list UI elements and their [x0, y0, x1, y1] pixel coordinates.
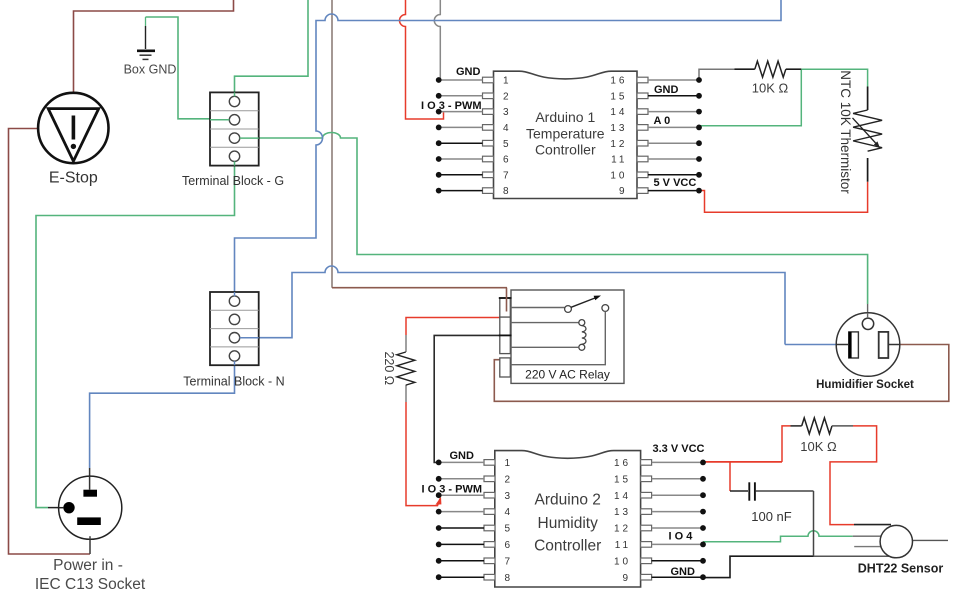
wire green Arduino1 pin13 A0 to 10K/thermistor node [699, 69, 801, 126]
svg-text:IEC C13 Socket: IEC C13 Socket [35, 576, 146, 593]
svg-text:A 0: A 0 [654, 115, 671, 127]
E-Stop switch symbol [38, 93, 108, 163]
svg-text:14: 14 [614, 491, 631, 502]
svg-text:GND: GND [654, 84, 679, 96]
wire stubs inside Terminal Block G [234, 92, 236, 96]
svg-text:11: 11 [611, 155, 627, 166]
wire green Terminal Block G pin3 to humidifier socket top [240, 133, 868, 305]
svg-text:14: 14 [610, 107, 627, 118]
wire black DHT22 top lead [854, 524, 891, 526]
wire Arduino1 pin16 up to 10K resistor (top) [699, 69, 735, 80]
wire 220ohm leads [405, 335, 407, 352]
Arduino2 pin 14 [614, 491, 706, 502]
Arduino2 pin 9 [623, 573, 706, 584]
Box GND ground symbol [137, 51, 155, 60]
svg-text:5 V VCC: 5 V VCC [654, 177, 697, 189]
svg-text:100 nF: 100 nF [751, 509, 792, 524]
wire red Arduino2 pin16 3.3V-VCC bus [704, 461, 782, 463]
IEC C13 power socket [59, 476, 122, 539]
Arduino1 pin 4 [436, 123, 512, 134]
Arduino1 pin 5 [436, 139, 512, 150]
svg-text:Power in -: Power in - [53, 557, 123, 574]
capacitor right lead [756, 490, 814, 492]
Arduino2 pin 16 [614, 458, 706, 469]
svg-text:E-Stop: E-Stop [49, 170, 98, 187]
capacitor left lead [730, 490, 748, 492]
svg-text:Arduino 2: Arduino 2 [535, 492, 601, 509]
svg-text:9: 9 [619, 186, 628, 197]
relay 220V AC box [511, 290, 624, 383]
Arduino1 pin 11 [611, 155, 702, 166]
resistor 10K (bottom, DHT22 pullup) [802, 418, 832, 434]
Arduino1 pin 12 [610, 139, 702, 150]
Arduino1 pin 9 [619, 186, 702, 197]
wire mains-L E-Stop left to IEC C13 bottom [9, 129, 91, 555]
wire relay line feed horizontal to relay terminal 1 [332, 287, 507, 289]
svg-text:3: 3 [503, 107, 512, 118]
black stub into humidifier left slot [838, 344, 849, 346]
svg-text:10K Ω: 10K Ω [752, 81, 789, 96]
svg-text:1: 1 [503, 76, 512, 87]
wire green ground from top edge to Terminal Block G pin1 [235, 0, 309, 97]
DHT22 NC stub lead [854, 546, 882, 548]
svg-text:GND: GND [456, 66, 481, 78]
Arduino2 pin 6 [436, 540, 513, 551]
Arduino1 pin 14 [610, 107, 702, 118]
Arduino1 pin 13 [610, 123, 702, 134]
wire relay line feed vertical (from top edge) [331, 0, 333, 288]
wire blue Terminal Block N pin4 down to IEC C13 neutral pin [90, 361, 235, 468]
Terminal Block - N [210, 292, 259, 365]
wire relay line feed drop into terminal 1 [506, 288, 508, 312]
wire red branch down to 100nF capacitor [729, 462, 731, 491]
wire red Arduino1 pin9 5V-VCC to thermistor bottom [699, 182, 868, 213]
Arduino2 pin 2 [436, 474, 513, 485]
wire black relay coil- to Arduino2 pin1 GND [434, 335, 500, 462]
wire stubs inside humidifier socket [867, 313, 869, 318]
svg-text:Controller: Controller [534, 538, 601, 555]
Arduino1 pin 1 [436, 76, 512, 87]
resistor 10K (top, thermistor divider) [755, 61, 786, 77]
Arduino2 pin 1 [436, 458, 513, 469]
Arduino1 pin 6 [436, 155, 512, 166]
svg-text:I O 3 - PWM: I O 3 - PWM [421, 100, 482, 112]
Arduino2 pin 12 [614, 524, 706, 535]
black stub into IEC top pin [89, 468, 91, 490]
wire relay NO terminal to humidifier socket loop [494, 345, 949, 402]
svg-text:10: 10 [614, 556, 631, 567]
svg-text:6: 6 [503, 155, 512, 166]
Arduino2 pin 11 [615, 540, 706, 551]
wire red up to 10K resistor (bottom) left lead [782, 426, 791, 462]
Arduino1 pin 3 [436, 107, 512, 118]
svg-text:16: 16 [610, 76, 627, 87]
svg-text:Temperature: Temperature [526, 125, 605, 141]
wire gray from top edge to Arduino1 pin1 GND, hop over blue [434, 0, 440, 80]
wire stubs inside Terminal Block N [234, 292, 236, 296]
svg-text:9: 9 [623, 573, 632, 584]
red arrow tick at Arduino2 pin3 [435, 497, 441, 505]
svg-text:6: 6 [505, 540, 514, 551]
svg-text:GND: GND [450, 450, 475, 462]
wire red 10K resistor (bottom) right to DHT22 top lead [830, 426, 877, 525]
DHT22 right lead [912, 539, 948, 541]
relay switch (common + NO contact) [510, 296, 608, 365]
wire IEC bottom stub [89, 536, 91, 554]
svg-text:2: 2 [505, 474, 514, 485]
Arduino2 pin 13 [614, 507, 706, 518]
Arduino2 pin 7 [436, 556, 513, 567]
wire green node to thermistor top [801, 69, 867, 86]
svg-text:4: 4 [503, 123, 512, 134]
wire blue N bus: top run to humidifier socket left, Terminal Block N pin1 [235, 0, 782, 296]
Arduino2 pin 4 [436, 507, 513, 518]
Arduino1 pin 2 [436, 91, 512, 102]
svg-text:7: 7 [503, 170, 512, 181]
svg-text:GND: GND [671, 566, 696, 578]
wire red relay coil to 220ohm resistor top [406, 318, 500, 336]
svg-text:I O 3 - PWM: I O 3 - PWM [422, 484, 483, 496]
wire black Arduino2 pin9 GND to capacitor/DHT22 ground [703, 556, 814, 577]
svg-text:Terminal Block - N: Terminal Block - N [183, 375, 284, 389]
svg-text:8: 8 [503, 186, 512, 197]
Arduino2 pin 5 [436, 524, 513, 535]
svg-text:12: 12 [610, 139, 627, 150]
svg-text:15: 15 [614, 474, 631, 485]
wire red from top edge to Arduino1 pin3 (IO3-PWM), hop over blue [400, 0, 444, 119]
svg-text:4: 4 [505, 507, 514, 518]
svg-text:3.3 V VCC: 3.3 V VCC [653, 443, 705, 455]
svg-text:5: 5 [505, 524, 514, 535]
wire green Box GND to Terminal Block G pin2 [146, 17, 230, 119]
Arduino1 pin 8 [436, 186, 512, 197]
svg-text:1: 1 [505, 458, 514, 469]
wire stubs inside IEC socket [89, 476, 91, 490]
svg-text:15: 15 [610, 91, 627, 102]
Arduino2 pin 15 [614, 474, 706, 485]
Arduino2 pin 8 [436, 573, 513, 584]
svg-text:220 Ω: 220 Ω [382, 351, 396, 385]
NTC thermistor [853, 87, 883, 182]
svg-text:3: 3 [505, 491, 514, 502]
svg-text:Humidifier Socket: Humidifier Socket [816, 379, 914, 391]
svg-text:16: 16 [614, 458, 631, 469]
svg-text:13: 13 [614, 507, 631, 518]
DHT22 sensor [880, 525, 912, 557]
wire blue Terminal Block N pin3 run, hop over relay feed [240, 266, 785, 345]
Box GND stem [145, 17, 147, 26]
op-amp style IC body Arduino2 [495, 451, 641, 587]
svg-text:Terminal Block - G: Terminal Block - G [182, 174, 284, 188]
wire red 220ohm bottom to Arduino2 pin3 [406, 402, 440, 506]
svg-text:10: 10 [610, 170, 627, 181]
wire green Terminal Block G pin4 down to IEC C13 earth pin [36, 161, 235, 507]
svg-text:Controller: Controller [535, 142, 596, 158]
svg-text:Box GND: Box GND [124, 63, 177, 77]
gray DHT22 data lead [853, 535, 882, 537]
wire blue humidifier left lead [785, 344, 838, 346]
svg-text:12: 12 [614, 524, 631, 535]
wire gray DHT22 bottom lead [814, 555, 890, 557]
svg-text:DHT22 Sensor: DHT22 Sensor [858, 562, 944, 576]
gray stub into humidifier top pin [867, 304, 869, 318]
Arduino2 pin 3 [436, 491, 513, 502]
black stub into IEC earth dot [48, 507, 63, 509]
Terminal Block - G [210, 92, 259, 165]
svg-text:8: 8 [505, 573, 514, 584]
Arduino1 pin 16 [610, 76, 702, 87]
wire gray ground riser to capacitor right plate [813, 491, 815, 556]
svg-text:220 V AC Relay: 220 V AC Relay [525, 368, 610, 382]
svg-text:11: 11 [615, 540, 631, 551]
resistor 220 ohm [397, 352, 415, 385]
svg-text:Arduino 1: Arduino 1 [535, 109, 595, 125]
humidifier socket [836, 313, 900, 377]
relay terminal strip [499, 298, 512, 377]
svg-text:10K Ω: 10K Ω [800, 439, 837, 454]
op-amp style IC body Arduino1 [494, 71, 638, 198]
svg-text:NTC 10K Thermistor: NTC 10K Thermistor [838, 70, 853, 194]
svg-text:13: 13 [610, 123, 627, 134]
Arduino1 pin 7 [436, 170, 512, 181]
Arduino1 pin 15 [610, 91, 702, 102]
wire mains-L from top edge to E-Stop top [74, 0, 234, 93]
svg-text:2: 2 [503, 91, 512, 102]
svg-text:I O 4: I O 4 [669, 531, 694, 543]
svg-text:Humidity: Humidity [538, 515, 599, 532]
wire green Arduino2 pin11 IO4 to DHT22, hop over black [703, 531, 853, 542]
Arduino2 pin 10 [614, 556, 706, 567]
capacitor 100nF plates [749, 482, 755, 500]
Arduino1 pin 10 [610, 170, 702, 181]
relay coil [510, 320, 586, 351]
svg-text:5: 5 [503, 139, 512, 150]
svg-text:7: 7 [505, 556, 514, 567]
